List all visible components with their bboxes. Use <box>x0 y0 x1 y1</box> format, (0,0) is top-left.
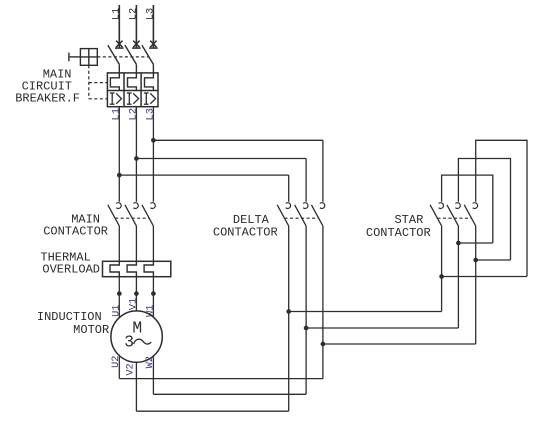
star contactor contact blade pole 2 <box>447 205 459 226</box>
wire main contactor to overload pole 3 <box>152 226 154 261</box>
svg-text:BREAKER.F: BREAKER.F <box>15 92 80 106</box>
main contactor contact blade pole 1 <box>108 205 120 226</box>
svg-text:L2: L2 <box>128 8 140 20</box>
wire delta contactor pole 3 down <box>322 226 324 379</box>
delta contactor contact blade pole 2 <box>295 205 307 226</box>
wire breaker to main contactor pole 1 <box>118 107 120 202</box>
wire delta contactor pole 2 down <box>305 226 307 394</box>
mechanism dashed link to magnetic row <box>89 98 108 100</box>
wire delta pole 3 to star pole 3 <box>323 343 476 345</box>
svg-text:L3: L3 <box>145 8 157 20</box>
star contactor contact terminal pole 3 <box>473 203 478 209</box>
terminal dot pole 1 <box>117 291 122 296</box>
junction dot delta pole 1 <box>286 309 291 314</box>
motor label ~ (AC wave) <box>134 339 152 344</box>
svg-text:V1: V1 <box>127 298 139 310</box>
junction dot star link 1 <box>456 241 461 246</box>
svg-text:CONTACTOR: CONTACTOR <box>213 226 278 240</box>
svg-text:OVERLOAD: OVERLOAD <box>42 262 100 276</box>
wire star contactor pole 2 down <box>457 226 459 328</box>
junction dot delta pole 3 <box>321 342 326 347</box>
breaker blade pole L1 <box>108 45 120 64</box>
star contactor contact blade pole 3 <box>464 205 476 226</box>
breaker blade pole L3 <box>142 45 154 64</box>
induction motor M1 circle <box>111 311 162 362</box>
wire overload to motor pole 1 <box>118 277 120 319</box>
main contactor contact terminal pole 1 <box>116 203 121 209</box>
svg-text:L3: L3 <box>144 108 156 121</box>
svg-text:3: 3 <box>124 333 134 352</box>
main contactor contact terminal pole 2 <box>133 203 138 209</box>
thermal overload box <box>103 261 171 276</box>
delta contactor contact terminal pole 2 <box>303 203 308 209</box>
junction dot L1 bus <box>117 173 122 178</box>
svg-text:L2: L2 <box>127 108 139 121</box>
wire star link 2 <box>476 259 511 261</box>
breaker magnetic trip I> pole 2 <box>127 93 139 104</box>
wire V2 to delta pole1 <box>135 362 137 411</box>
breaker thermal element pole 1 <box>110 73 119 91</box>
breaker contact terminal L2 <box>132 41 141 49</box>
star contactor contact terminal pole 2 <box>455 203 460 209</box>
wire star pole2 top loop <box>458 159 510 261</box>
delta contactor contact terminal pole 1 <box>286 203 291 209</box>
star contactor linkage dashed line <box>437 217 471 219</box>
wire main contactor to overload pole 2 <box>135 226 137 261</box>
mechanism dashed link to thermal row <box>89 82 108 84</box>
delta contactor contact blade pole 3 <box>311 205 323 226</box>
svg-text:MOTOR: MOTOR <box>73 323 109 337</box>
wire breaker to main contactor pole 2 <box>135 107 137 202</box>
svg-text:U1: U1 <box>111 305 123 317</box>
wire delta contactor pole 1 down <box>288 226 290 411</box>
wire star link 3 <box>442 276 527 278</box>
star contactor contact blade pole 1 <box>430 205 442 226</box>
overload heater element pole 3 <box>144 261 153 276</box>
junction dot star link 2 <box>473 258 478 263</box>
svg-text:V2: V2 <box>124 363 136 375</box>
main circuit breaker F box <box>107 73 158 107</box>
breaker magnetic trip I> pole 3 <box>144 93 156 104</box>
wire supply line L2 vertical <box>135 5 137 48</box>
wire supply line L1 vertical <box>118 5 120 48</box>
svg-text:INDUCTION: INDUCTION <box>37 310 102 324</box>
main contactor contact blade pole 3 <box>142 205 154 226</box>
wire supply line L3 vertical <box>152 5 154 48</box>
svg-text:U2: U2 <box>110 356 122 368</box>
breaker magnetic trip I> pole 1 <box>110 93 122 104</box>
delta contactor linkage dashed line <box>285 217 319 219</box>
wire main contactor to overload pole 1 <box>118 226 120 261</box>
wire W2 to delta pole2 <box>152 355 154 394</box>
overload heater element pole 1 <box>110 261 119 276</box>
svg-text:L1: L1 <box>110 108 122 121</box>
wire star contactor pole 3 down <box>475 226 477 344</box>
terminal dot pole 3 <box>151 291 156 296</box>
delta contactor contact terminal pole 3 <box>320 203 325 209</box>
breaker contact terminal L1 <box>115 41 124 49</box>
mechanism dashed link vertical <box>88 65 90 99</box>
wire bus L3 to delta pole3 <box>153 139 323 141</box>
wire overload to motor pole 2 <box>135 277 137 311</box>
breaker thermal element pole 3 <box>145 73 154 91</box>
wire bus L2 to delta pole2 <box>136 158 306 160</box>
svg-text:CONTACTOR: CONTACTOR <box>366 226 431 240</box>
junction dot L2 bus <box>134 156 139 161</box>
wire bus L1 to delta pole1 <box>119 174 288 176</box>
terminal dot pole 2 <box>134 291 139 296</box>
wire star link 1 <box>458 242 492 244</box>
junction dot L3 bus <box>151 138 156 143</box>
breaker thermal element pole 2 <box>128 73 137 91</box>
wire delta pole 1 to star pole 1 <box>289 311 442 313</box>
main circuit breaker operating mechanism (square with cross) <box>69 49 97 66</box>
breaker contact terminal L3 <box>149 41 158 49</box>
mechanism dashed link to blades <box>97 56 148 58</box>
wire star pole3 top loop <box>476 140 527 276</box>
svg-text:CONTACTOR: CONTACTOR <box>43 224 108 238</box>
star contactor contact terminal pole 1 <box>439 203 444 209</box>
main contactor contact blade pole 2 <box>125 205 136 226</box>
wire star contactor pole 1 down <box>441 226 443 312</box>
svg-text:L1: L1 <box>111 8 123 20</box>
junction dot star link 3 <box>439 274 444 279</box>
breaker blade pole L2 <box>125 45 136 64</box>
wire breaker to main contactor pole 3 <box>152 107 154 202</box>
main contactor linkage dashed line <box>115 217 149 219</box>
overload heater element pole 2 <box>127 261 136 276</box>
main contactor contact terminal pole 3 <box>150 203 155 209</box>
delta contactor contact blade pole 1 <box>277 205 289 226</box>
wire star pole1 top loop <box>442 175 493 243</box>
wire U2 to delta pole3 <box>118 355 120 379</box>
wire overload to motor pole 3 <box>152 277 154 318</box>
junction dot delta pole 2 <box>304 326 309 331</box>
wire delta pole 2 to star pole 2 <box>306 327 458 329</box>
